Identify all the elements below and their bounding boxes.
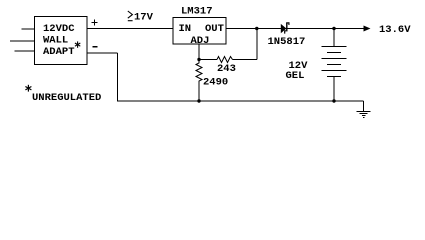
svg-text:1N5817: 1N5817 — [268, 36, 306, 48]
svg-text:17V: 17V — [134, 12, 154, 24]
svg-text:12VDC: 12VDC — [43, 23, 75, 35]
ground plate 2 — [360, 113, 368, 115]
wire R1 left lead — [199, 59, 217, 61]
wire OUT rail — [226, 28, 364, 30]
wire AC lead 1 — [22, 28, 36, 30]
battery BT1 plate long 2 — [322, 58, 347, 60]
svg-text:ADJ: ADJ — [191, 35, 210, 47]
wire - down to rail — [117, 53, 119, 102]
battery BT1 plate short 2 — [327, 64, 341, 66]
resistor R1 243 zigzag — [217, 57, 233, 63]
svg-text:UNREGULATED: UNREGULATED — [32, 92, 101, 104]
svg-text:2490: 2490 — [203, 77, 228, 89]
wire ground rail — [118, 100, 364, 102]
plus terminal mark — [92, 22, 98, 24]
svg-text:ADAPT: ADAPT — [43, 46, 75, 58]
label >=17V net: drawn greater-equal glyph — [128, 11, 133, 21]
diode D1 schottky cathode bar — [286, 22, 287, 31]
junction dot ADJ node — [197, 58, 200, 61]
minus terminal mark — [93, 46, 98, 48]
wire R1 right lead — [233, 59, 258, 61]
diode D1 anode triangle — [281, 24, 287, 33]
svg-text:WALL: WALL — [43, 35, 68, 47]
wire ground stub — [363, 101, 365, 112]
battery BT1 plate long 3 — [322, 70, 347, 72]
resistor R2 2490 zigzag — [196, 60, 202, 83]
battery BT1 plate short 3 — [327, 76, 341, 78]
wire R2 to ground rail — [198, 82, 200, 101]
wire AC lead 2 — [10, 40, 35, 42]
ground plate 1 — [357, 111, 371, 113]
power supply PS1 12VDC wall adapter box — [35, 17, 88, 65]
output arrow head — [364, 26, 371, 32]
ground plate 4 — [363, 117, 365, 119]
wire battery top lead — [333, 29, 335, 47]
svg-text:OUT: OUT — [205, 23, 224, 35]
junction dot OUT/R1 node — [255, 27, 258, 30]
ground plate 3 — [362, 115, 366, 117]
svg-text:LM317: LM317 — [181, 6, 213, 18]
battery BT1 plate long 1 — [322, 46, 347, 48]
junction dot rail/battery node — [332, 99, 335, 102]
battery BT1 plate short 1 — [327, 52, 341, 54]
junction dot rail/R2 node — [197, 99, 200, 102]
op-amp U1 LM317 regulator box — [173, 18, 226, 45]
footnote asterisk — [25, 85, 31, 92]
footnote asterisk on ADAPT — [75, 41, 80, 47]
svg-text:GEL: GEL — [286, 70, 305, 82]
wire + output — [87, 28, 173, 30]
junction dot battery tap node — [332, 27, 335, 30]
wire battery bottom lead — [333, 77, 335, 102]
svg-text:243: 243 — [217, 63, 236, 75]
svg-text:13.6V: 13.6V — [379, 24, 411, 36]
svg-text:IN: IN — [179, 23, 192, 35]
wire - stub — [87, 52, 118, 54]
wire AC lead 3 — [15, 50, 36, 52]
wire ADJ down — [198, 44, 200, 60]
wire R1 up to OUT — [256, 29, 258, 60]
